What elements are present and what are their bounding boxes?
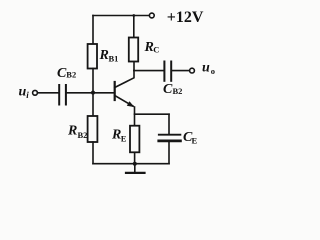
wire RB2 bottom to ground rail [92, 142, 94, 164]
svg-text:B1: B1 [109, 54, 119, 64]
svg-text:B2: B2 [66, 70, 76, 80]
resistor RC [129, 38, 138, 62]
transistor emitter lead with arrow [115, 96, 135, 108]
wire CE bottom to ground rail [168, 142, 170, 163]
ground [126, 164, 145, 173]
label CB2 input [57, 66, 76, 81]
svg-text:B2: B2 [78, 130, 88, 140]
svg-text:E: E [192, 136, 198, 146]
terminal output uo open circle [190, 68, 195, 73]
label CE [183, 130, 198, 146]
wire input terminal to CB2 [37, 92, 58, 94]
node base junction dot [91, 91, 95, 95]
wire top-left vertical down to RB1 [92, 16, 94, 45]
svg-text:E: E [121, 134, 127, 144]
transistor collector lead [115, 62, 134, 88]
wire output cap to terminal [172, 70, 189, 72]
svg-text:u: u [202, 61, 210, 76]
wire bottom ground rail [93, 163, 169, 165]
wire CB2 to base node and on to transistor base [67, 92, 114, 94]
svg-text:i: i [26, 90, 29, 100]
svg-text:o: o [211, 66, 215, 76]
resistor RE [130, 126, 139, 153]
svg-text:B2: B2 [173, 86, 183, 96]
resistor RB1 [88, 44, 97, 69]
transistor NPN: base bar [114, 82, 116, 100]
label RC [144, 40, 160, 55]
wire CE top vertical [168, 114, 170, 134]
capacitor CB2 output coupling [164, 62, 171, 81]
svg-text:C: C [153, 45, 159, 55]
wire top rail from RB1 top to +12V terminal [93, 15, 149, 17]
svg-text:u: u [19, 85, 27, 100]
label CB2 output [163, 82, 182, 97]
svg-text:C: C [163, 82, 173, 97]
label uo [202, 61, 215, 77]
wire emitter down to RE [134, 107, 136, 126]
label RB1 [99, 48, 119, 64]
wire RC top vertical [133, 16, 135, 38]
label RB2 [67, 124, 87, 141]
wire RE bottom to ground rail [134, 152, 136, 163]
node junction of RC branch on top rail [132, 14, 135, 17]
svg-text:R: R [99, 48, 109, 63]
svg-text:R: R [67, 124, 77, 139]
label RE [111, 128, 127, 144]
wire emitter node to CE branch [135, 113, 170, 115]
wire base node down to RB2 [92, 93, 94, 116]
resistor RB2 [88, 116, 98, 142]
svg-text:+12V: +12V [167, 9, 204, 26]
terminal input ui open circle [33, 90, 38, 95]
label ui [19, 85, 30, 101]
capacitor CB2 input coupling [59, 85, 66, 105]
capacitor CE bypass [159, 135, 181, 141]
terminal +12V open circle [149, 13, 154, 18]
wire collector node to output cap [134, 70, 164, 72]
wire RB1 bottom to base node [92, 69, 94, 93]
label +12V [167, 9, 204, 26]
node ground junction dot [133, 162, 137, 166]
